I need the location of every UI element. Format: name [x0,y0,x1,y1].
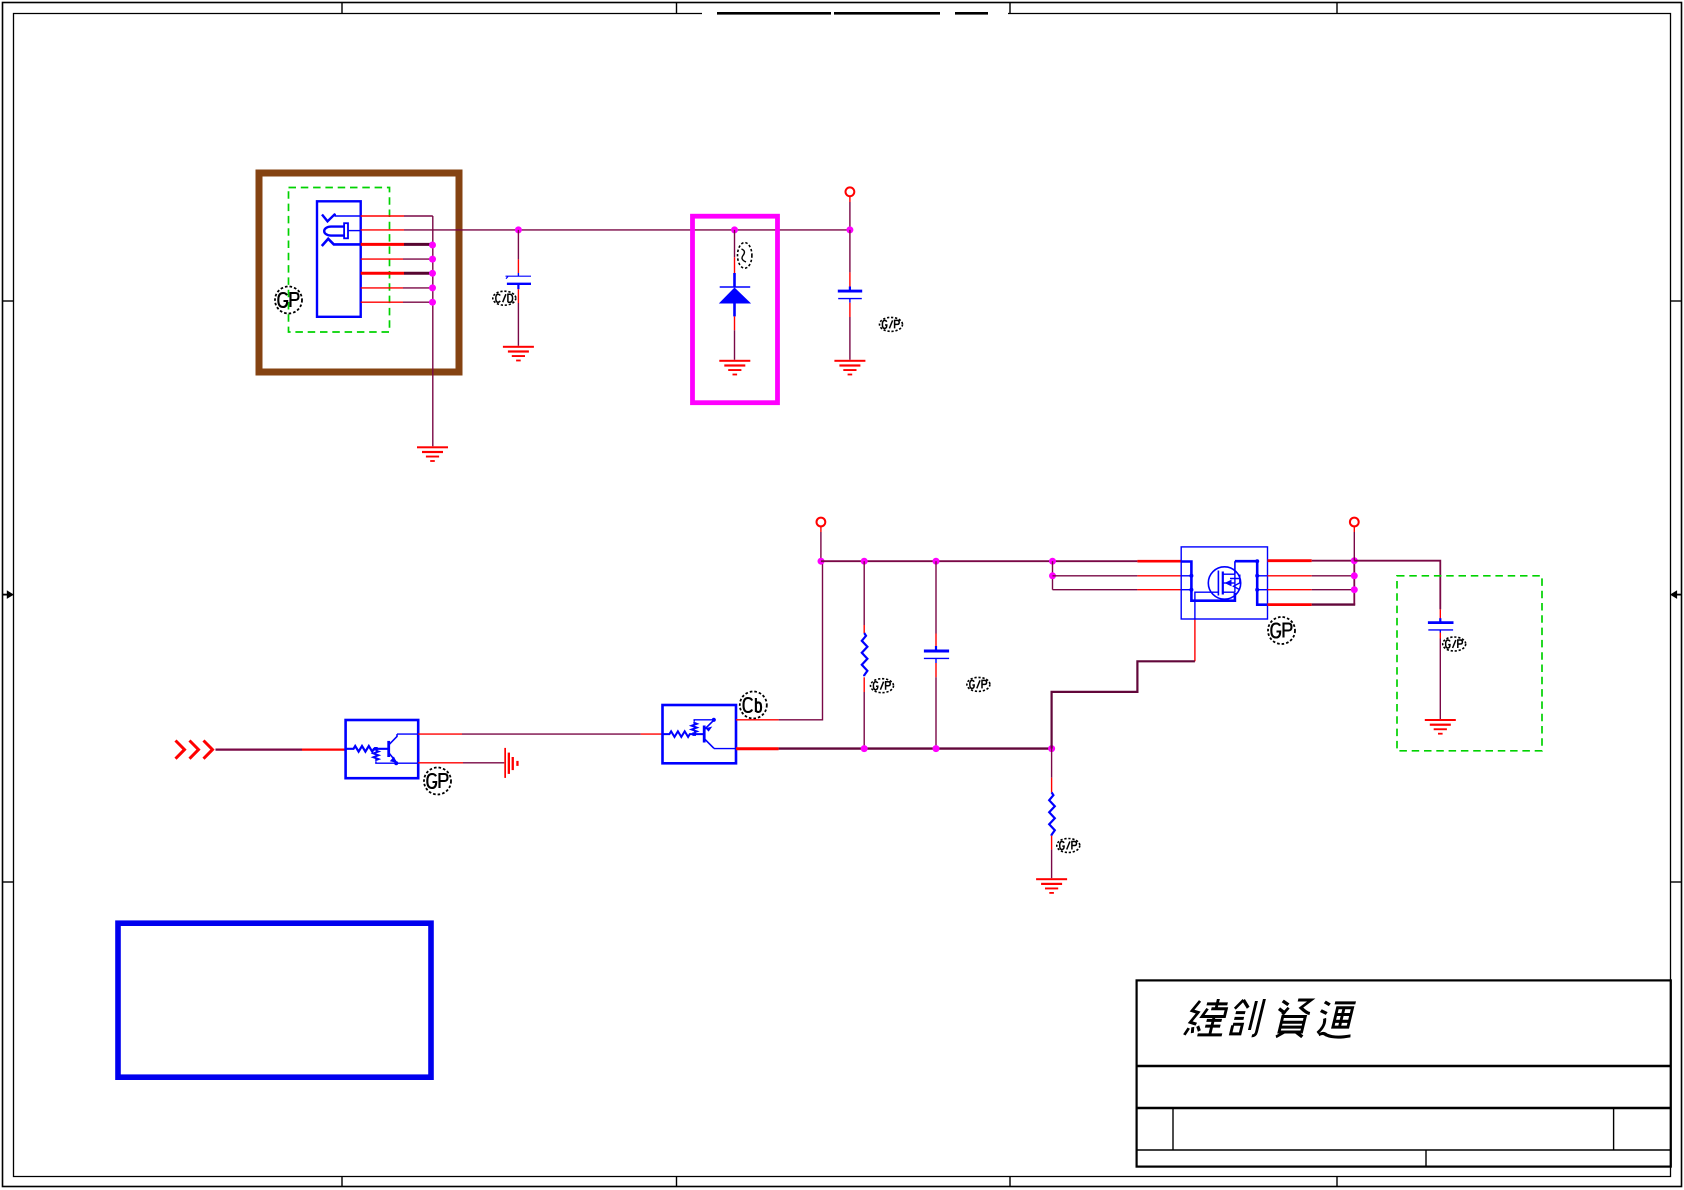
wire C2 bottom (maroon) [849,317,851,360]
zone tick bottom 1 [341,1177,343,1188]
ground symbol G7 (below C4) [1425,719,1456,735]
wire J1 pin6 (red) [361,287,403,289]
wire J1 pin1 (maroon) [404,215,433,217]
wire row4 out (red thick) [1268,603,1312,606]
label GP (Q1) [424,768,451,795]
resistor R2 [1049,792,1055,835]
power terminal P1 [846,187,855,196]
wire J1 pin4 (red) [361,258,403,260]
wire row2 (maroon) [1312,575,1355,577]
wire gate staircase (maroon) [1052,661,1195,748]
wire J1 pin4 (maroon) [403,258,432,260]
wire input (red) [302,748,346,750]
J1 jack barrel [324,227,344,236]
wire C1 bottom (red) [517,289,519,303]
wire J1 pin5 thick (dark) [404,272,432,275]
wire C4 bottom (maroon) [1439,639,1441,720]
wire Q2 input (red) [641,733,663,735]
wire row4 (maroon thick) [1312,603,1356,605]
wire top rail (red into U1) [1137,560,1181,563]
junction bottom rail / C3 [933,745,940,752]
wire J1 pin6 (maroon) [403,287,432,289]
wire P3 down (maroon) [1353,532,1355,561]
protection region box D1 (magenta box) [693,216,778,403]
resistor R1 top wire (maroon) [863,561,865,625]
label GP (U1) [1268,617,1295,644]
junction bottom rail / gate net [1048,745,1055,752]
wire P2 down (maroon) [820,532,822,561]
resistor R2 top wire (maroon) [1051,749,1053,778]
wire J1 pin7 (maroon) [403,301,432,303]
Q2 internals [663,718,737,749]
power terminal P3 [1350,518,1359,527]
zone tick bottom 4 [1336,1177,1338,1188]
label G/P (R1) [871,679,894,693]
junction J1 pin6 [429,284,436,291]
resistor R2 bottom wire (red) [1051,836,1053,850]
note box (blue rectangle bottom-left) [118,923,431,1077]
resistor R1 [862,633,868,676]
centerline arrow right [1670,590,1682,599]
junction J1 pin4 [429,256,436,263]
wire Q2 top out (maroon) to riser [779,561,823,720]
zone tick right 2 [1671,881,1683,883]
wire bottom rail (maroon) [779,747,1052,749]
junction P2 / top rail [818,558,825,565]
ground symbol G1 (below J1) [417,446,448,462]
title block cell divider c [1425,1150,1427,1167]
wire C2 top (maroon) [849,230,851,273]
wire branch to U1 pins (vertical) [1052,561,1054,590]
capacitor C3 top wire (maroon) [935,561,937,633]
wire C1 top (maroon) [517,230,519,260]
transistor Q1 (digital NPN) box [346,720,419,778]
label G/P (R2) [1057,839,1080,853]
label Cb (Q2) [740,692,767,719]
wire U1 pin row2 (red) [1137,575,1181,577]
junction VIN / D1 [731,226,738,233]
wire Q2 bottom out thick (red) [736,747,779,750]
diode D1 (TVS) [719,273,751,316]
title block cell divider a [1172,1108,1174,1150]
resistor R1 top wire (red) [863,625,865,633]
junction VIN / C1 [515,226,522,233]
top cut-off text dashes [702,12,1008,16]
label GP (J1) [275,287,302,314]
wire P1 stub (red) [849,196,851,202]
wire U1 pin row3 (red) [1137,589,1181,591]
C4 variant region (green dashed box) [1397,576,1542,751]
junction J1 pin5 [429,270,436,277]
Q1 internals [346,734,419,765]
zone tick top 2 [676,2,678,14]
wire D1 top (red) [734,257,736,273]
capacitor C2 [838,287,862,303]
wire Q1 collector to Q2 (maroon) [462,733,641,735]
wire U1 drain out row1 (red thick) [1268,559,1312,562]
J1 jack pin2 lead [348,230,361,232]
wire J1 pin7 (red) [361,301,403,303]
junction right bus row1 [1351,557,1358,564]
U1 internals [1181,559,1267,619]
ground symbol G3 (below D1) [719,360,750,376]
wire C4 top (red) [1439,609,1441,619]
wire J1 pin3 thick (red) [361,243,404,246]
wire D1 bottom (red) [734,316,736,330]
junction VIN / C2 [846,226,853,233]
resistor R1 bottom wire (red) [863,677,865,692]
J1 variant region (green dashed box) [289,188,390,333]
wire C1 top (red) [517,259,519,273]
zone tick bottom 3 [1009,1177,1011,1188]
title block row line 2 [1137,1107,1671,1109]
title block row line 1 [1137,1065,1671,1067]
capacitor C4 [1428,618,1454,632]
junction J1 pin3 [429,242,436,249]
wire row2 out (red) [1268,575,1312,577]
label G/P (C4) [1443,637,1466,651]
wire top rail (maroon) [821,560,1138,562]
junction branch [1049,572,1056,579]
wire Q1 emitter out (red) [418,762,463,764]
zone tick bottom 2 [676,1177,678,1188]
wire D1 bottom (maroon) [734,330,736,360]
wire C1 bottom (maroon) [517,303,519,346]
capacitor C3 [924,646,949,663]
wire Q1 collector out (red) [418,733,462,735]
wire row3 (maroon) [1312,589,1355,591]
ground symbol G4 (below C2) [834,360,865,376]
wire gate staircase (red from U1) [1194,619,1196,661]
label G/P (C3) [967,677,990,691]
zone tick right 1 [1671,300,1683,302]
J1 jack symbol switch chevron top [322,214,335,222]
title block row line 3 [1137,1149,1671,1151]
centerline arrow left [2,590,14,599]
junction rail / R1 [861,558,868,565]
resistor R1 bottom wire (maroon) [863,692,865,749]
U1 MOSFET symbol [1208,567,1240,599]
wire J1 pin3 thick (dark) [404,243,432,246]
wire D1 top (maroon) [734,230,736,257]
wire J1 pin2 (red) [361,229,404,231]
capacitor C3 bottom wire (red) [935,663,937,677]
wire Q2 top out (red) [736,719,779,721]
zone tick top 3 [1009,2,1011,14]
J1 jack switch chevron bottom [322,239,361,246]
ground symbol G6 (below R2) [1036,878,1067,894]
resistor R2 bottom wire (maroon) [1051,850,1053,879]
company logo text 緯創資通 (drawn strokes) [1184,999,1360,1037]
wire J1 pin5 thick (red) [361,272,404,275]
wire net VIN main horizontal (maroon) [404,229,850,231]
junction rail / C3 [933,558,940,565]
junction bottom rail / R1 [861,745,868,752]
input port chevrons [176,741,213,759]
J1 jack center pin plate [344,223,348,238]
title block cell divider b [1613,1108,1615,1150]
title block outer [1137,980,1671,1166]
wire U1 pin row2 (maroon) [1053,575,1138,577]
connector J1 body [317,201,361,316]
wire right bus vertical [1353,561,1355,605]
wire C2 top (red) [849,272,851,288]
wire P3 stub (red) [1353,527,1355,533]
wire P2 stub (red) [820,527,822,533]
wire J1 pin1 (red) [361,215,404,217]
zone tick top 1 [341,2,343,14]
junction right bus row2 [1351,572,1358,579]
zone tick top 4 [1336,2,1338,14]
J1 jack symbol pin1 lead [335,214,361,216]
connector J1 DC power jack block (brown box) [259,173,459,372]
wire row1 (maroon) [1312,560,1355,562]
wire Q1 emitter to ground (maroon) [463,762,504,764]
capacitor C3 top wire (red) [935,634,937,647]
U1 drain bus right [1235,561,1268,605]
wire J1 ground bus vertical [432,216,434,446]
wire U1 pin row3 (maroon) [1053,589,1138,591]
label D1 scribble [738,243,752,269]
capacitor C3 bottom wire (maroon) [935,677,937,748]
transistor Q2 (digital PNP) box [663,705,737,763]
wire row3 out (red) [1268,589,1312,591]
label C/D (C1) [493,291,516,305]
U1 gate lead [1195,592,1219,619]
ground symbol G5 sideways (signal ground) [504,748,518,778]
resistor R2 top wire (red) [1051,778,1053,793]
wire input (maroon) [216,748,303,750]
junction right bus row3 [1351,586,1358,593]
junction J1 pin7 [429,299,436,306]
ground symbol G2 (below C1) [503,346,534,362]
power terminal P2 [817,518,826,527]
label G/P (C2) [880,317,903,331]
capacitor C1 [506,273,532,289]
wire output rail to C4 (maroon) [1354,561,1440,610]
zone tick left 2 [2,881,14,883]
MOSFET U1 box [1181,547,1267,619]
wire C4 bottom (red) [1439,633,1441,639]
junction rail / branch [1049,558,1056,565]
wire C2 bottom (red) [849,303,851,317]
zone tick left 1 [2,300,14,302]
wire P1 down (maroon) [849,202,851,230]
